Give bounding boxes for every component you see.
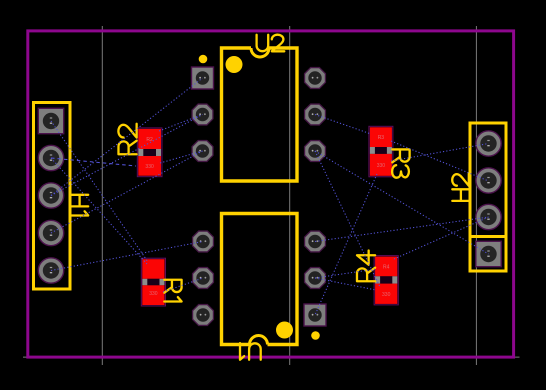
R2 pad bottom xyxy=(138,156,161,176)
H2 pad 3 xyxy=(476,168,501,193)
R3 tab right xyxy=(387,147,392,154)
H1 outline xyxy=(34,103,71,290)
R4 pad bottom xyxy=(375,284,397,304)
R1 tab left xyxy=(142,279,147,286)
grid line vertical 1 xyxy=(101,26,103,365)
R1 pad bottom xyxy=(142,285,164,305)
R2 tab right xyxy=(156,149,161,156)
resistor R2 xyxy=(118,124,162,177)
airwire H1.3 to U2 pad2 xyxy=(51,115,203,196)
airwire H1.4 to U2 pad2 xyxy=(51,151,203,233)
R4 body outline xyxy=(374,256,398,305)
airwire R4 top to H2.2 xyxy=(394,217,489,259)
H1 pad 5 xyxy=(38,258,63,283)
R2 tab left xyxy=(138,149,143,156)
IC U1 xyxy=(193,214,326,360)
R4 tab right xyxy=(392,276,397,283)
U1 pad 1 (square) xyxy=(304,304,326,326)
H2 divider xyxy=(470,235,506,238)
airwire U1 right1 to H2.2 xyxy=(315,217,489,242)
svg-text:R3: R3 xyxy=(378,135,385,141)
R1 tab right xyxy=(160,279,165,286)
H1 pad 2 xyxy=(38,145,63,170)
H2 outline xyxy=(470,123,506,271)
U1 pin1 dot xyxy=(276,322,293,339)
U1 pad 6 xyxy=(193,305,214,326)
grid line vertical 3 xyxy=(475,26,477,365)
U1 notch xyxy=(250,336,268,345)
svg-text:330: 330 xyxy=(149,291,158,297)
airwire R3 top to H2.3 xyxy=(391,141,489,181)
U2 small dot xyxy=(199,55,208,64)
U1 pad 3 xyxy=(305,231,326,252)
R3 body outline xyxy=(369,126,393,177)
board outline xyxy=(28,31,514,357)
U2 notch xyxy=(251,48,269,57)
H2 pad 1 (square) xyxy=(476,241,501,266)
svg-text:330: 330 xyxy=(382,292,391,298)
R1 pad top xyxy=(142,259,164,279)
resistor R1 xyxy=(141,258,181,306)
airwire H1.1 to R1 top xyxy=(51,121,148,262)
airwire U2 right3 to H2.1 xyxy=(315,151,489,254)
U2 pad 3 xyxy=(192,141,213,162)
R1 label xyxy=(164,280,181,302)
airwire U1 right2 to R4 top xyxy=(315,269,376,278)
U1 outline xyxy=(222,214,298,345)
R3 pad top xyxy=(370,127,392,147)
U1 pad 4 xyxy=(193,231,214,252)
resistor R4 xyxy=(357,251,398,305)
R2 body outline xyxy=(137,128,162,177)
R3 tab left xyxy=(370,147,375,154)
R1 body outline xyxy=(141,258,165,306)
R2 label xyxy=(118,124,136,154)
airwire R2 top to U2 pad2 xyxy=(159,115,203,132)
R3 label xyxy=(392,149,410,177)
U1 label xyxy=(240,343,261,360)
U2 label xyxy=(257,35,285,52)
airwire R2 bottom to U2 pad3 xyxy=(160,151,203,163)
R4 pad top xyxy=(375,257,397,277)
U1 small dot xyxy=(311,331,320,340)
H2 pad 4 xyxy=(476,131,501,156)
airwire U1 right2 to R4 bottom xyxy=(315,278,376,290)
airwire U2 right2 to R3 top xyxy=(315,115,371,135)
R2 pad top xyxy=(138,129,161,149)
U2 pad 2 xyxy=(192,104,213,125)
R4 label xyxy=(357,251,375,282)
R4 tab left xyxy=(375,276,380,283)
airwire H1.2 to R2 bottom xyxy=(51,158,136,166)
connector H1 xyxy=(34,103,89,290)
grid line horizontal xyxy=(23,356,520,358)
airwire R3 bottom to H2.4 xyxy=(391,144,489,162)
H1 pad 3 xyxy=(38,183,63,208)
U2 pad 4 xyxy=(305,141,326,162)
connector H2 xyxy=(452,123,506,271)
U1 pad 5 xyxy=(193,268,214,289)
U2 outline xyxy=(222,48,298,181)
IC U2 xyxy=(192,35,326,181)
H2 pad 2 xyxy=(476,204,501,229)
svg-text:330: 330 xyxy=(145,164,154,170)
H1 pad 1 (square) xyxy=(38,108,63,133)
airwire R1 bottom to U1 pad2 xyxy=(163,278,203,292)
R3 pad bottom xyxy=(370,154,392,176)
resistor R3 xyxy=(369,126,410,177)
airwire U2 right3 to R4 bottom xyxy=(315,151,380,287)
airwire H1.2 to R1 top xyxy=(51,158,147,264)
U2 pad 6 xyxy=(305,68,326,89)
U1 pad 2 xyxy=(305,268,326,289)
airwire H1.3 to U2 pad1 xyxy=(51,78,203,196)
airwire R3 bottom to U1 pad square xyxy=(315,174,377,315)
svg-text:R4: R4 xyxy=(383,265,390,271)
H2 label xyxy=(452,173,469,201)
H1 label xyxy=(72,195,89,216)
svg-text:330: 330 xyxy=(377,163,386,169)
grid line vertical 2 xyxy=(289,26,291,365)
svg-text:R2: R2 xyxy=(146,137,153,143)
H1 pad 4 xyxy=(38,220,63,245)
U2 pin1 dot xyxy=(226,56,243,73)
U2 pad 5 xyxy=(305,104,326,125)
airwire H1.5 to U1 pad xyxy=(51,242,203,271)
U2 pad 1 (square) xyxy=(192,67,214,89)
